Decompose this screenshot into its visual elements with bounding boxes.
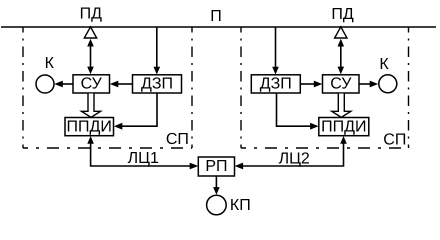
- block СУ right: [323, 75, 360, 93]
- wire ЛЦ2 ППДИ to РП: [235, 136, 347, 169]
- transducer triangle right (ПД pickup): [335, 27, 347, 38]
- svg-text:РП: РП: [205, 158, 227, 175]
- wire РП to КП with arrow: [213, 176, 220, 195]
- hollow arrow СУ to ППДИ left: [82, 94, 101, 118]
- svg-text:КП: КП: [230, 197, 251, 214]
- svg-text:СУ: СУ: [81, 75, 103, 92]
- dashed boundary СП right: bottom side: [241, 147, 409, 149]
- svg-text:ДЗП: ДЗП: [141, 75, 173, 92]
- dashed boundary СП left: right side: [191, 27, 193, 148]
- wire ЛЦ1 ППДИ to РП: [87, 136, 198, 169]
- wire П line to ДЗП right with arrow: [272, 27, 279, 75]
- svg-text:П: П: [210, 8, 222, 25]
- wire double arrow triangle-СУ right: [338, 39, 345, 75]
- svg-text:ПД: ПД: [80, 6, 103, 23]
- wire СУ to К left with arrow: [54, 81, 73, 88]
- svg-text:К: К: [379, 56, 389, 73]
- dashed boundary СП left: bottom side: [23, 147, 192, 149]
- terminal circle КП: [207, 195, 227, 215]
- wire ДЗП to СУ left with arrow: [110, 81, 133, 88]
- svg-text:К: К: [45, 55, 55, 72]
- node П main line: [1, 26, 436, 28]
- svg-text:ЛЦ2: ЛЦ2: [279, 150, 310, 167]
- terminal circle К left: [36, 75, 54, 93]
- svg-text:СУ: СУ: [330, 75, 352, 92]
- wire ДЗП to СУ right with arrow: [300, 81, 322, 88]
- block ДЗП right: [251, 75, 300, 93]
- wire П line to ДЗП left with arrow: [154, 27, 161, 75]
- block ДЗП left: [133, 75, 182, 93]
- svg-text:ПД: ПД: [331, 6, 354, 23]
- svg-text:ППДИ: ППДИ: [67, 118, 112, 135]
- wire ДЗП to ППДИ right with arrow: [277, 93, 319, 130]
- block ППДИ left: [65, 118, 114, 136]
- terminal circle К right: [379, 75, 397, 93]
- svg-text:ППДИ: ППДИ: [321, 118, 366, 135]
- hollow arrow СУ to ППДИ right: [332, 94, 351, 118]
- block РП: [198, 157, 234, 176]
- svg-text:ЛЦ1: ЛЦ1: [128, 150, 159, 167]
- dashed boundary СП left: left side: [22, 27, 24, 148]
- transducer triangle left (ПД pickup): [84, 27, 96, 38]
- wire СУ to К right with arrow: [359, 81, 378, 88]
- dashed boundary СП right: right side: [408, 27, 410, 148]
- block ППДИ right: [319, 118, 369, 136]
- wire double arrow triangle-СУ left: [87, 39, 94, 75]
- wire ДЗП to ППДИ left with arrow: [114, 93, 157, 130]
- svg-text:ДЗП: ДЗП: [260, 75, 292, 92]
- dashed boundary СП right: left side: [240, 27, 242, 148]
- svg-text:СП: СП: [383, 132, 406, 149]
- block СУ left: [73, 75, 110, 93]
- svg-text:СП: СП: [166, 131, 189, 148]
